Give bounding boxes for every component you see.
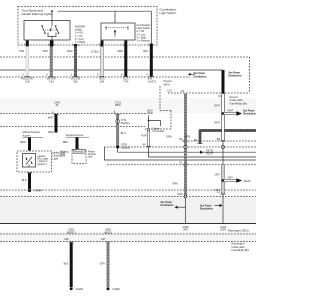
node on GRY wire xyxy=(222,179,225,182)
ground G404 xyxy=(28,189,31,192)
passenger's MICU boundary dashed lower xyxy=(0,241,256,243)
driver's MICU box edge dashed vertical xyxy=(159,86,161,111)
svg-text:Distribution: Distribution xyxy=(200,208,213,211)
internal feed wire xyxy=(58,10,151,12)
wire BLK from switch pin 8 xyxy=(150,47,153,77)
passenger's MICU bus line xyxy=(0,223,256,225)
driver's MICU box bottom dashed xyxy=(160,110,171,112)
svg-text:Light: Light xyxy=(53,158,59,161)
svg-text:GRN: GRN xyxy=(166,135,172,138)
svg-text:ORN: ORN xyxy=(184,135,190,138)
svg-text:GRY: GRY xyxy=(43,50,49,53)
connector ticks at fuse box entry xyxy=(25,76,154,78)
ground G401 xyxy=(70,287,73,290)
svg-text:See Power: See Power xyxy=(161,202,173,204)
ignition key illumination light enclosure (dashed) xyxy=(17,151,52,172)
passenger's MICU boundary dashed upper xyxy=(0,233,256,235)
svg-text:See Power: See Power xyxy=(243,110,255,112)
wire RED (black) from switch pin 3 xyxy=(124,47,127,77)
svg-text:7.5A: 7.5A xyxy=(49,80,54,83)
connector pin stubs at enclosure bottom xyxy=(27,41,151,48)
wire GRN thin to MICU xyxy=(185,198,187,224)
svg-text:BLU: BLU xyxy=(121,132,126,135)
arrow to GRN wire xyxy=(178,206,186,208)
arrow label TB-7E / TB-D7 xyxy=(200,151,204,154)
svg-text:G402: G402 xyxy=(113,287,121,291)
connector circle on GRN at floor boundary xyxy=(184,195,187,198)
headlight switch box xyxy=(101,23,135,40)
svg-text:7.5A: 7.5A xyxy=(123,80,128,83)
gauge assembly dashed boundary xyxy=(182,140,256,142)
connector circle on GRN at gauge boundary xyxy=(184,145,187,148)
svg-text:Distribution: Distribution xyxy=(243,113,256,116)
svg-text:BLU: BLU xyxy=(143,50,148,53)
wire drop to turn signal switch xyxy=(51,11,53,26)
svg-text:BLK: BLK xyxy=(64,263,69,266)
floor harness boundary dashed lower xyxy=(0,196,256,198)
svg-text:Plug: Plug xyxy=(60,153,66,156)
svg-text:See Power: See Power xyxy=(228,72,240,74)
bus wire (power feed) xyxy=(0,69,223,71)
svg-text:Keyless Access: Keyless Access xyxy=(66,134,84,137)
ignition key light bulb box xyxy=(23,154,36,168)
svg-text:C410: C410 xyxy=(177,193,184,196)
wire to see power distribution arrow xyxy=(224,113,237,115)
svg-text:Distribution: Distribution xyxy=(194,76,207,79)
bulb symbol xyxy=(25,157,32,167)
svg-text:Light Switch: Light Switch xyxy=(160,11,177,15)
svg-text:(Option): (Option) xyxy=(121,122,130,125)
svg-text:Passenger's MICU: Passenger's MICU xyxy=(228,230,249,233)
svg-text:A6-P6: A6-P6 xyxy=(244,180,252,183)
combination light switch enclosure (dashed) xyxy=(18,7,157,46)
wire GRY to ground G402 xyxy=(107,243,110,288)
tick F2 xyxy=(221,193,226,195)
svg-text:RED: RED xyxy=(148,112,153,115)
svg-text:GRY: GRY xyxy=(100,263,106,266)
wire thin below gauge boundary xyxy=(222,141,224,165)
svg-text:PUR: PUR xyxy=(141,135,146,138)
wire PUR white to option connector xyxy=(148,131,150,147)
svg-text:G401: G401 xyxy=(76,287,84,291)
tick B3 xyxy=(221,140,226,142)
wire drop to headlight switch xyxy=(114,11,116,23)
svg-text:Access: Access xyxy=(23,134,32,137)
wire to right edge C xyxy=(118,147,256,152)
dashed boundary below gauge xyxy=(107,164,256,166)
headlight switch contacts xyxy=(106,26,128,37)
svg-text:See Power: See Power xyxy=(200,205,212,207)
svg-text:Distribution: Distribution xyxy=(161,204,174,207)
node on WHT wire xyxy=(222,112,225,115)
svg-text:Fuse/Relay Box: Fuse/Relay Box xyxy=(232,249,250,252)
svg-text:G404: G404 xyxy=(35,188,43,192)
svg-text:GRN: GRN xyxy=(172,182,178,185)
wire BLK to ground G401 xyxy=(70,243,73,288)
svg-text:10A: 10A xyxy=(25,80,30,83)
inline connector on BRN wire xyxy=(116,120,120,124)
tick on GRN at dashed boundary xyxy=(183,164,188,166)
svg-text:GRY: GRY xyxy=(215,174,221,177)
see power distribution arrow (left) xyxy=(191,73,195,75)
svg-text:Fuse/Relay Box: Fuse/Relay Box xyxy=(230,102,248,105)
svg-text:RED: RED xyxy=(63,141,68,144)
wire to right edge B xyxy=(149,147,257,157)
svg-text:RED: RED xyxy=(67,50,72,53)
gauge control module top dashed boundary xyxy=(104,146,256,148)
floor harness boundary dashed upper xyxy=(0,189,256,191)
svg-text:Resistor: Resistor xyxy=(74,151,83,154)
svg-text:15A: 15A xyxy=(73,80,78,83)
svg-text:10A: 10A xyxy=(100,80,105,83)
wire PNK (pale) from switch pin 7 xyxy=(26,47,29,77)
svg-text:Unit: Unit xyxy=(88,156,93,159)
svg-text:(BODY): (BODY) xyxy=(67,231,76,234)
wire thin to MICU bus xyxy=(222,194,224,224)
wire BLK to ground xyxy=(27,172,32,174)
dashed vertical joint xyxy=(170,111,172,130)
fuse box boundary dashed line (full width) xyxy=(0,56,250,58)
connector boundary dashed line C xyxy=(0,113,146,115)
wire GRY segment xyxy=(222,165,225,194)
svg-text:ignition ): ignition ) xyxy=(38,163,48,166)
connector circle on WHT at gauge boundary xyxy=(221,145,224,148)
svg-text:(12P): (12P) xyxy=(220,228,226,231)
turn signal switch contacts xyxy=(41,25,59,46)
svg-text:PNK: PNK xyxy=(19,50,24,53)
svg-text:Distribution: Distribution xyxy=(228,75,241,78)
fuse box lower boundary dashed line xyxy=(0,76,190,78)
wire GRY from switch pin 4 xyxy=(50,47,53,77)
turn signal switch box xyxy=(24,21,70,41)
connector boundary dashed line D xyxy=(0,126,145,128)
svg-text:(MICU): (MICU) xyxy=(104,231,112,234)
svg-text:BLK: BLK xyxy=(22,179,27,182)
svg-text:3 = Passing: 3 = Passing xyxy=(137,40,151,43)
wire LT BLU from switch pin 9 xyxy=(101,47,104,77)
wire RED from switch pin 5 xyxy=(74,47,77,77)
driver's under-dash fuse/relay box right edge dashed xyxy=(249,57,251,93)
wire WHT double-line inside fuse box xyxy=(222,94,225,141)
svg-text:RED: RED xyxy=(48,131,53,134)
svg-text:See Power: See Power xyxy=(194,73,206,75)
ground G402 xyxy=(107,287,110,290)
arrow to A6-P6 xyxy=(224,180,237,182)
svg-text:TB-D7: TB-D7 xyxy=(206,153,214,156)
svg-text:WHT: WHT xyxy=(48,117,54,120)
svg-text:LT BLU: LT BLU xyxy=(91,51,99,54)
svg-text:WHT: WHT xyxy=(214,105,220,108)
wire drop right pin xyxy=(150,11,152,43)
arrow to WHT wire xyxy=(215,205,220,207)
svg-text:C27: C27 xyxy=(101,238,106,241)
keyless access control unit enclosure (dashed) xyxy=(72,150,86,164)
svg-text:(LAST): (LAST) xyxy=(148,80,156,83)
node feed-left xyxy=(51,10,53,12)
wire WHT (black above fuse box) xyxy=(222,70,225,94)
driver's under-dash fuse/relay box boundary dashed xyxy=(168,92,248,94)
fuse/circuit labels under entry row xyxy=(21,78,129,84)
svg-text:BRN: BRN xyxy=(115,104,120,107)
svg-text:MICU: MICU xyxy=(164,83,171,86)
svg-text:WHT: WHT xyxy=(214,122,220,125)
svg-text:A26: A26 xyxy=(64,238,69,241)
svg-text:(4P): (4P) xyxy=(183,228,188,231)
svg-text:C15: C15 xyxy=(167,90,172,93)
svg-text:(Option): (Option) xyxy=(121,147,130,150)
resistor element box xyxy=(73,150,85,153)
svg-text:Hazard Warning Lights: Hazard Warning Lights xyxy=(22,12,53,16)
ticks at MICU exit xyxy=(69,241,74,243)
wire to right edge A xyxy=(105,147,257,160)
svg-text:RED: RED xyxy=(118,50,123,53)
wire ORN corner to right edge xyxy=(200,131,256,144)
svg-text:Connector: Connector xyxy=(153,130,165,133)
svg-text:RED: RED xyxy=(20,141,25,144)
svg-text:WHT: WHT xyxy=(228,109,234,112)
connector circle option xyxy=(147,128,150,131)
svg-text:GRY: GRY xyxy=(228,176,234,179)
node: option connector junction xyxy=(116,146,119,149)
